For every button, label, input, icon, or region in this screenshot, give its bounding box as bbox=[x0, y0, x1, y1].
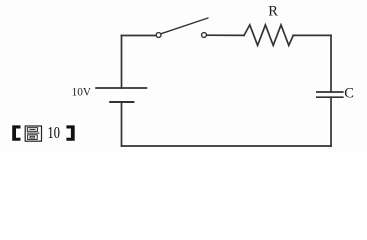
svg-text:10V: 10V bbox=[72, 87, 92, 99]
wire right vertical (to capacitor top plate) bbox=[330, 35, 332, 92]
battery B1 short plate (-) bbox=[109, 101, 134, 103]
wire left vertical top (battery + to top-left corner) bbox=[121, 36, 123, 89]
resistor R1 zigzag bbox=[244, 25, 293, 46]
switch S1 right contact circle bbox=[202, 33, 207, 38]
svg-text:10: 10 bbox=[48, 123, 60, 142]
wire bottom horizontal bbox=[122, 145, 332, 147]
figure caption character 圖 bbox=[25, 126, 41, 141]
battery B1 long plate (+) bbox=[95, 87, 147, 89]
switch S1 lever bbox=[161, 18, 208, 34]
wire switch to resistor bbox=[206, 34, 244, 36]
wire left vertical bottom (battery - down to bottom corner) bbox=[121, 102, 123, 146]
svg-text:R: R bbox=[268, 4, 278, 20]
svg-text:C: C bbox=[344, 86, 354, 102]
switch S1 left contact circle bbox=[156, 33, 161, 38]
capacitor C1 bottom plate bbox=[316, 96, 344, 98]
capacitor C1 top plate bbox=[316, 91, 344, 93]
wire right vertical below capacitor bbox=[330, 97, 332, 146]
wire resistor to top-right corner bbox=[293, 34, 331, 36]
figure caption right bracket 】 bbox=[66, 125, 74, 140]
wire top-left horizontal (corner to switch) bbox=[122, 35, 157, 37]
figure caption left bracket 【 bbox=[12, 125, 20, 140]
